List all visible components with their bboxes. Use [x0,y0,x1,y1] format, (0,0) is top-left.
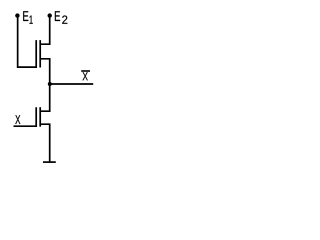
wire X input gate lead and Q2 gate bar [14,107,37,126]
transistor Q1 source stub, rail down through node, Q2 drain stub [40,59,50,111]
wire output horizontal [50,83,93,85]
transistor Q2 source stub and rail down to ground [40,124,50,162]
label E2 subscript 2 [62,16,67,24]
transistor Q1 channel bar [39,40,41,67]
label E2 letter E [55,11,60,21]
transistor Q1 drain stub joining wire from E2 [40,15,50,44]
transistor Q2 channel bar [39,107,41,127]
label Xbar output letter X [83,72,88,80]
label E1 letter E [23,11,28,21]
terminal dot E2 [48,13,52,17]
ground bar [43,161,56,163]
label X input [15,115,20,124]
junction node dot [48,82,52,86]
wire E1 down, across, and up as Q1 gate bar [18,15,37,67]
terminal dot E1 [15,13,19,17]
overline of output Xbar [81,70,90,72]
label E1 subscript 1 [30,16,33,24]
